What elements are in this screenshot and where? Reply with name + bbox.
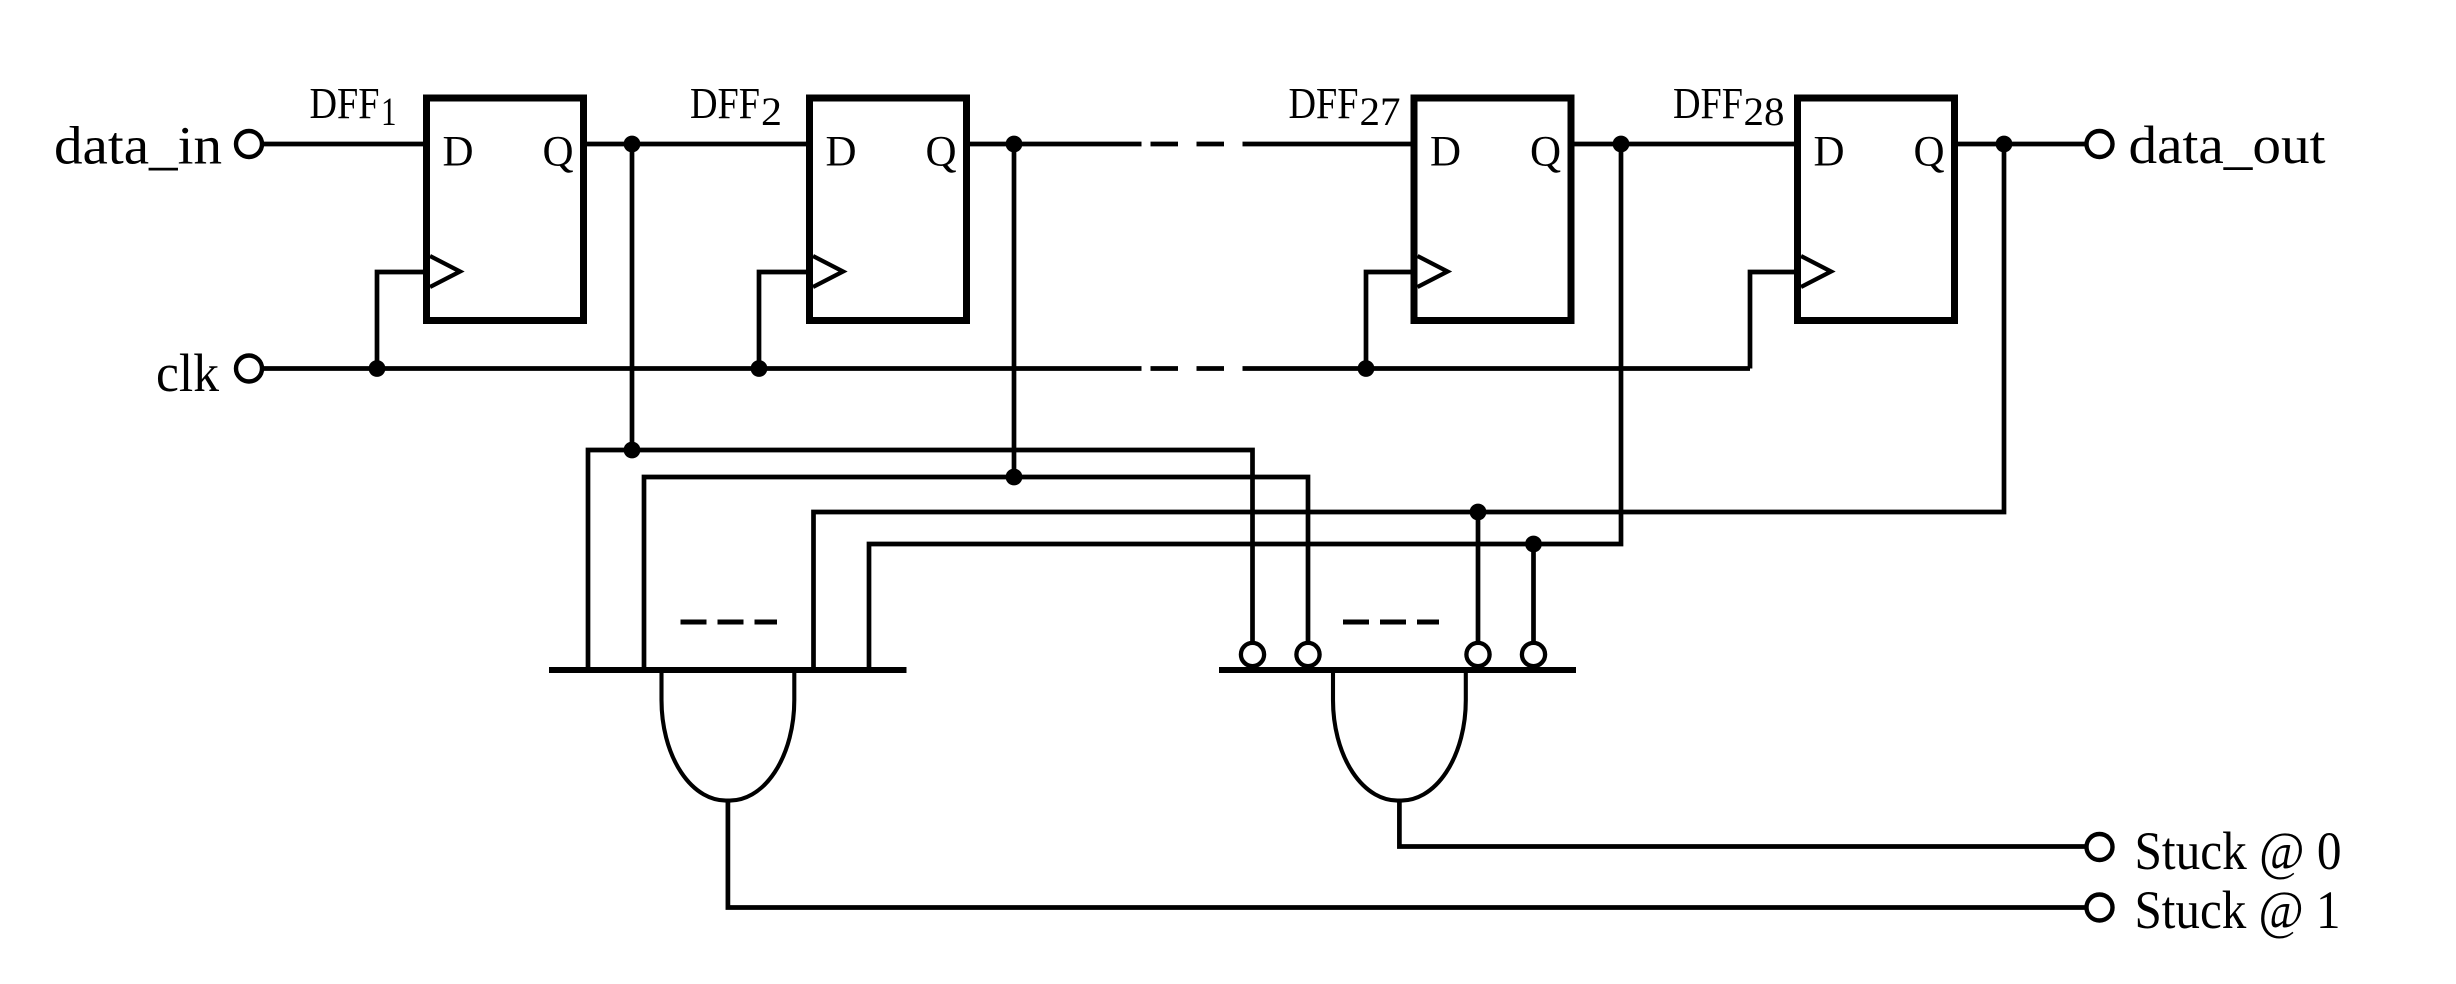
clock triangle DFF2 bbox=[813, 256, 843, 287]
svg-text:Q: Q bbox=[1914, 129, 1945, 176]
svg-text:28: 28 bbox=[1744, 89, 1785, 134]
clock triangle DFF1 bbox=[430, 256, 460, 287]
wire clk branch to DFF27 bbox=[1366, 272, 1414, 369]
wire DFF2.Q out bbox=[967, 142, 1142, 147]
svg-text:D: D bbox=[826, 129, 857, 176]
svg-text:D: D bbox=[1814, 129, 1845, 176]
terminal circle data_out bbox=[2087, 131, 2113, 157]
AND gate G2 inner dashes bbox=[1343, 620, 1439, 625]
junction dot net2 bbox=[1006, 469, 1023, 486]
inverter bubble input 1 of G2 bbox=[1241, 643, 1264, 666]
junction dot net3 bbox=[1470, 504, 1487, 521]
wire DFF2.Q tap down to AND1 net bbox=[1012, 144, 1017, 477]
junction dot clk27 bbox=[1358, 360, 1375, 377]
AND gate G1 body bbox=[661, 670, 794, 801]
wire net Q2 horizontal run bbox=[644, 477, 1308, 670]
wire drop to bubble 4 bbox=[1531, 544, 1536, 646]
wire clk branch to DFF28 bbox=[1750, 272, 1798, 369]
terminal circle Stuck@0 bbox=[2087, 834, 2113, 860]
wire DFF27.Q to DFF28.D bbox=[1571, 142, 1798, 147]
svg-text:DFF: DFF bbox=[690, 79, 760, 128]
terminal circle data_in bbox=[236, 131, 262, 157]
AND gate G1 inner dashes bbox=[681, 620, 778, 625]
svg-text:Q: Q bbox=[926, 129, 957, 176]
wire DFF1.Q to DFF2.D bbox=[584, 142, 810, 147]
svg-text:1: 1 bbox=[381, 89, 397, 134]
junction dot Q2 bbox=[1006, 136, 1023, 153]
wire net Q1 horizontal run bbox=[588, 450, 1253, 670]
wire G1 output to Stuck@1 bbox=[728, 801, 2087, 908]
wire into DFF27.D bbox=[1270, 142, 1414, 147]
wire clk branch to DFF2 bbox=[759, 272, 810, 369]
inverter bubble input 3 of G2 bbox=[1466, 643, 1489, 666]
svg-text:Q: Q bbox=[543, 129, 574, 176]
wire G2 output to Stuck@0 bbox=[1399, 801, 2087, 847]
junction dot Q1 bbox=[624, 136, 641, 153]
wire clk branch to DFF1 bbox=[377, 272, 427, 369]
AND gate G2 body bbox=[1333, 670, 1466, 801]
wire data_in to DFF1.D bbox=[249, 142, 426, 147]
DFF2 box U2 bbox=[810, 98, 967, 321]
svg-text:DFF: DFF bbox=[1289, 79, 1359, 128]
DFF28 box U28 bbox=[1798, 98, 1955, 321]
junction dot Q28 bbox=[1996, 136, 2013, 153]
svg-text:data_out: data_out bbox=[2129, 115, 2326, 175]
svg-text:Stuck @ 0: Stuck @ 0 bbox=[2135, 821, 2342, 881]
svg-text:2: 2 bbox=[761, 89, 782, 134]
junction dot net4 bbox=[1525, 536, 1542, 553]
svg-text:Q: Q bbox=[1530, 129, 1561, 176]
svg-text:DFF: DFF bbox=[310, 79, 380, 128]
DFF27 box U27 bbox=[1414, 98, 1571, 321]
inverter bubble input 2 of G2 bbox=[1296, 643, 1319, 666]
svg-text:DFF: DFF bbox=[1673, 79, 1743, 128]
wire DFF1.Q tap down to AND1 net bbox=[630, 144, 635, 450]
AND gate G2 input bus bbox=[1219, 667, 1576, 673]
clock triangle DFF27 bbox=[1418, 256, 1448, 287]
AND gate G1 input bus bbox=[549, 667, 907, 673]
wire dashed clk chain continuation bbox=[1151, 366, 1271, 371]
svg-text:clk: clk bbox=[156, 343, 219, 403]
wire dashed data chain continuation bbox=[1151, 142, 1271, 147]
wire net Q27 horizontal run bbox=[869, 144, 1621, 670]
svg-text:Stuck @ 1: Stuck @ 1 bbox=[2135, 880, 2341, 940]
junction dot net1 bbox=[624, 442, 641, 459]
wire clk trunk bbox=[249, 366, 1142, 371]
svg-text:D: D bbox=[1430, 129, 1461, 176]
clock triangle DFF28 bbox=[1801, 256, 1831, 287]
wire drop to bubble 3 bbox=[1476, 512, 1481, 646]
svg-text:data_in: data_in bbox=[54, 116, 222, 176]
wire net Q28 horizontal run bbox=[814, 144, 2005, 670]
DFF1 box U1 bbox=[427, 98, 584, 321]
wire DFF28.Q to data_out bbox=[1955, 142, 2088, 147]
junction dot clk2 bbox=[751, 360, 768, 377]
svg-text:D: D bbox=[443, 129, 474, 176]
junction dot clk1 bbox=[369, 360, 386, 377]
terminal circle clk bbox=[236, 356, 262, 382]
svg-text:27: 27 bbox=[1360, 89, 1401, 134]
inverter bubble input 4 of G2 bbox=[1522, 643, 1545, 666]
junction dot Q27 bbox=[1613, 136, 1630, 153]
terminal circle Stuck@1 bbox=[2087, 895, 2113, 921]
